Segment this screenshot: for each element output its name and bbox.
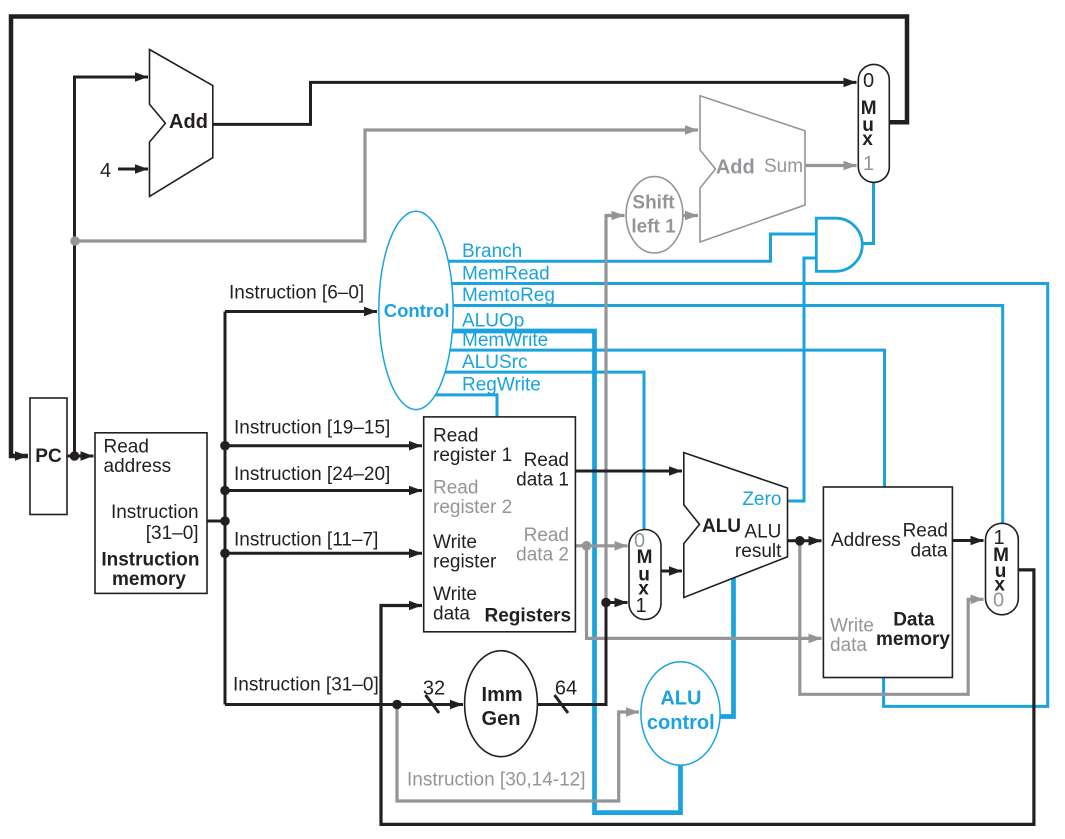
wire Read data 2 to ALUSrc mux input 0 (gray) xyxy=(575,544,627,547)
wire Instruction [24-20] to Read register 2 xyxy=(225,489,422,492)
svg-text:Instruction: Instruction xyxy=(111,502,199,523)
wire Data memory Read data to MemtoReg mux input 1 xyxy=(952,539,984,542)
svg-text:ALU: ALU xyxy=(702,516,741,537)
wire Read data 2 to Data memory Write data (gray) xyxy=(587,546,822,639)
wire PC to branch adder (gray) xyxy=(75,130,698,241)
wire Imm Gen output to ALUSrc mux input 1 xyxy=(537,603,627,705)
svg-text:Instruction [30,14-12]: Instruction [30,14-12] xyxy=(407,770,586,791)
ALUSrc mux xyxy=(629,530,661,620)
svg-text:64: 64 xyxy=(555,678,577,700)
wire ALU result to Data memory Address xyxy=(788,539,822,542)
data memory box xyxy=(823,487,952,678)
svg-text:Instruction: Instruction xyxy=(101,549,199,570)
svg-text:Write: Write xyxy=(433,584,477,605)
ALU xyxy=(684,453,788,598)
svg-text:ALUSrc: ALUSrc xyxy=(462,352,527,373)
svg-text:Instruction [11–7]: Instruction [11–7] xyxy=(234,530,378,551)
control unit ellipse xyxy=(379,211,453,409)
svg-text:RegWrite: RegWrite xyxy=(462,375,541,396)
svg-text:data: data xyxy=(911,540,948,561)
svg-text:[31–0]: [31–0] xyxy=(146,523,199,544)
svg-text:Instruction [6–0]: Instruction [6–0] xyxy=(229,283,364,304)
svg-text:result: result xyxy=(735,541,782,562)
wire Instruction [19-15] to Read register 1 xyxy=(225,444,422,447)
imm gen ellipse xyxy=(465,651,538,757)
svg-text:1: 1 xyxy=(635,595,646,617)
svg-text:control: control xyxy=(647,712,715,734)
wire PC to top adder xyxy=(75,77,149,456)
junction dot PC output xyxy=(70,451,80,461)
wire write-back from MemtoReg mux to Registers Write data xyxy=(381,570,1034,825)
wire PC source mux output feedback loop to PC (thick) xyxy=(11,17,907,457)
wire ALUSrc mux output to ALU xyxy=(661,570,682,573)
svg-text:0: 0 xyxy=(993,589,1004,611)
svg-text:Sum: Sum xyxy=(764,156,803,177)
wire MemtoReg control signal xyxy=(450,306,1003,527)
svg-text:Imm: Imm xyxy=(482,684,523,706)
wire ALUSrc control signal xyxy=(440,372,644,532)
svg-text:left 1: left 1 xyxy=(631,217,676,238)
junction dot read data 2 (gray) xyxy=(582,541,592,551)
wire branch adder Sum to PC source mux input 1 (gray) xyxy=(805,164,857,167)
svg-text:MemRead: MemRead xyxy=(462,264,550,285)
svg-text:data: data xyxy=(433,604,470,625)
svg-text:Write: Write xyxy=(433,532,477,553)
bus width slash 32 xyxy=(426,695,440,713)
junction dot instruction bus output xyxy=(220,516,230,526)
wire constant 4 to top adder xyxy=(118,168,148,171)
svg-text:Gen: Gen xyxy=(482,708,521,730)
wire AND gate output to PC source mux select xyxy=(861,180,874,244)
svg-text:Read: Read xyxy=(433,426,478,447)
svg-text:Shift: Shift xyxy=(632,193,675,214)
wire MemWrite control signal xyxy=(445,350,885,490)
PC source mux (top right) xyxy=(858,64,889,182)
wire RegWrite control signal xyxy=(430,395,497,420)
svg-text:address: address xyxy=(104,456,172,477)
junction dot instruction bus 19-15 xyxy=(220,441,230,451)
svg-text:MemWrite: MemWrite xyxy=(462,330,548,351)
wire immediate to Shift left 1 (gray) xyxy=(606,216,625,603)
wire ALUOp control signal (thick) xyxy=(450,331,681,813)
svg-text:ALU: ALU xyxy=(744,522,781,543)
svg-text:PC: PC xyxy=(35,446,62,467)
svg-text:Data: Data xyxy=(893,610,935,631)
svg-text:Read: Read xyxy=(433,478,478,499)
wire Instruction [11-7] to Write register xyxy=(225,552,422,555)
wire Instruction [31-0] to Imm Gen xyxy=(225,703,463,706)
MemtoReg mux xyxy=(986,523,1019,615)
adder Add (PC+4) xyxy=(150,50,213,197)
svg-text:Zero: Zero xyxy=(742,489,781,510)
wire Shift left 1 to branch adder (gray) xyxy=(682,214,698,217)
svg-text:data: data xyxy=(830,635,867,656)
svg-text:Address: Address xyxy=(831,530,901,551)
svg-text:Registers: Registers xyxy=(485,606,572,627)
junction dot instruction to imm gen and ALU control xyxy=(392,700,402,710)
wire top adder result to PC source mux input 0 xyxy=(213,82,857,124)
wire MemRead control signal xyxy=(445,284,1048,707)
wire PC to Instruction memory Read address xyxy=(67,455,94,458)
svg-text:data 1: data 1 xyxy=(516,470,569,491)
bus width slash 64 xyxy=(555,695,569,713)
junction dot instruction bus 11-7 xyxy=(220,549,230,559)
svg-text:Branch: Branch xyxy=(462,241,522,262)
instruction memory box xyxy=(95,433,207,594)
svg-text:data 2: data 2 xyxy=(516,545,569,566)
registers box xyxy=(424,417,576,632)
svg-text:register 2: register 2 xyxy=(433,497,512,518)
svg-text:4: 4 xyxy=(100,160,111,182)
wire Instruction [6-0] to Control xyxy=(225,310,377,313)
svg-text:ALUOp: ALUOp xyxy=(462,311,524,332)
svg-text:Add: Add xyxy=(716,157,755,179)
svg-text:MemtoReg: MemtoReg xyxy=(462,285,555,306)
junction dot ALU result xyxy=(795,536,805,546)
svg-text:register: register xyxy=(433,552,497,573)
junction dot instruction bus 24-20 xyxy=(220,486,230,496)
shift left 1 ellipse (gray) xyxy=(626,177,683,253)
wire Zero flag from ALU to AND gate xyxy=(788,258,818,501)
svg-text:register 1: register 1 xyxy=(433,445,512,466)
adder Add Sum (branch target, gray) xyxy=(700,96,805,242)
svg-text:Control: Control xyxy=(384,300,450,321)
svg-text:Read: Read xyxy=(903,521,948,542)
svg-text:Instruction [31–0]: Instruction [31–0] xyxy=(233,675,379,696)
svg-text:memory: memory xyxy=(112,569,186,590)
svg-text:Instruction [19–15]: Instruction [19–15] xyxy=(234,418,390,439)
svg-text:memory: memory xyxy=(876,629,950,650)
wire ALU control output to ALU (thick) xyxy=(716,577,734,717)
svg-text:0: 0 xyxy=(863,70,874,92)
junction dot immediate to mux and shift xyxy=(601,598,611,608)
svg-text:x: x xyxy=(862,129,873,150)
svg-text:Read: Read xyxy=(524,525,569,546)
wire Instruction memory output to instruction bus xyxy=(207,520,225,523)
svg-text:Read: Read xyxy=(524,450,569,471)
ALU control ellipse xyxy=(641,662,720,765)
svg-text:ALU: ALU xyxy=(660,688,701,710)
svg-text:1: 1 xyxy=(863,153,874,175)
wire Read data 1 to ALU xyxy=(575,470,682,473)
svg-text:Add: Add xyxy=(169,111,208,133)
wire Branch control signal xyxy=(440,234,817,261)
svg-text:Read: Read xyxy=(104,437,149,458)
PC register xyxy=(30,398,67,515)
wire Instruction [30,14-12] to ALU control (gray) xyxy=(397,705,639,802)
svg-text:Write: Write xyxy=(830,616,874,637)
wire ALU result to MemtoReg mux input 0 (gray) xyxy=(800,541,984,695)
junction dot PC to branch adder (gray) xyxy=(70,236,80,246)
svg-text:32: 32 xyxy=(423,678,445,700)
AND gate (branch AND zero) xyxy=(816,218,862,271)
wire instruction bus vertical xyxy=(224,312,227,705)
svg-text:Instruction [24–20]: Instruction [24–20] xyxy=(234,464,390,485)
